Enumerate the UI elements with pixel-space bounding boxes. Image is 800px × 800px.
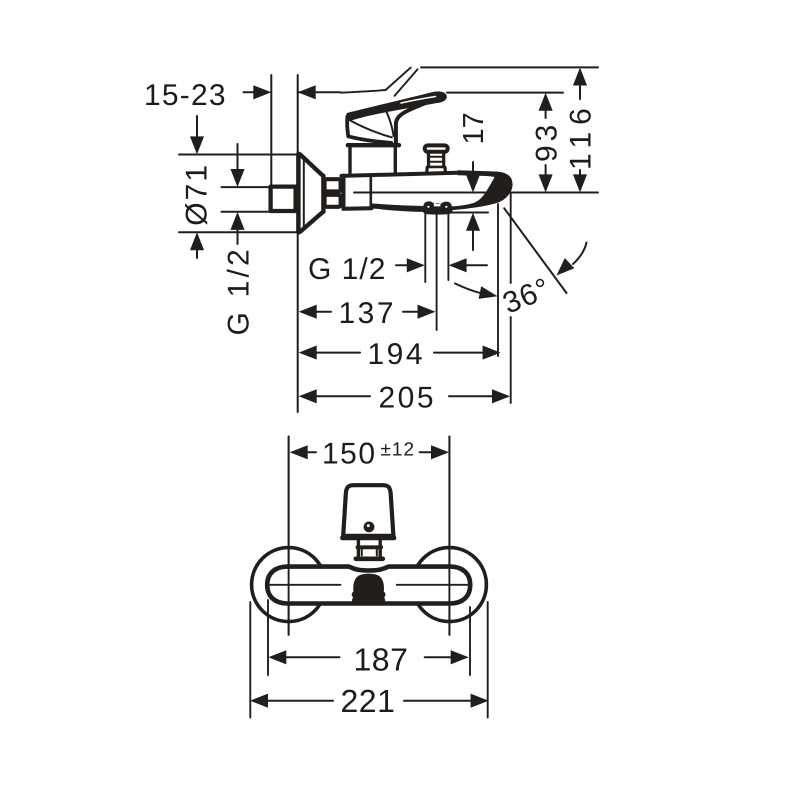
wire: reference line y=92.3 right segment (93 ref) bbox=[447, 92, 563, 94]
body capsule bbox=[267, 567, 470, 604]
angle 36 leader arc to diagonal bbox=[573, 243, 587, 265]
spout (filled profile) bbox=[371, 171, 512, 212]
center line horizontal front view bbox=[266, 584, 468, 586]
handle shell bottom edge bbox=[348, 136, 391, 143]
dimension 15-23 arrow right-pointing bbox=[253, 85, 271, 99]
svg-text:116: 116 bbox=[565, 101, 598, 170]
shower outlet knob ribs bbox=[429, 156, 444, 158]
handle knob bottom band bbox=[343, 535, 394, 540]
valve body left edge bbox=[342, 176, 346, 209]
svg-text:194: 194 bbox=[368, 338, 426, 371]
svg-text:137: 137 bbox=[339, 297, 397, 330]
valve body bottom edge bbox=[344, 206, 372, 211]
center line vertical left (redraw over capsule) bbox=[288, 437, 290, 635]
extension line spout tip x=498 bbox=[497, 204, 499, 356]
dimension 15-23 arrow left-pointing bbox=[298, 85, 316, 99]
handle knob front bbox=[343, 485, 393, 536]
escutcheon top slant bbox=[300, 154, 323, 176]
svg-text:150: 150 bbox=[322, 438, 377, 471]
wire: extension line escutcheon back x=297.7 top bbox=[297, 75, 299, 154]
wire: extension line wall plane x=271 bbox=[270, 75, 272, 186]
dimension 187 line bbox=[286, 656, 339, 658]
G1/2 left arrow up bbox=[230, 212, 244, 230]
wall flange circle right bbox=[412, 548, 486, 622]
dimension 17 arrow up bbox=[466, 213, 480, 231]
cartridge column right edge bbox=[394, 147, 397, 172]
dimension 93 arrow down bbox=[539, 174, 553, 192]
union ring square lower bbox=[325, 195, 341, 207]
handle lever blade white slit bbox=[401, 97, 436, 104]
wire: top reference line y=67.4 (116 ref) bbox=[421, 66, 598, 68]
extension line spout outer x=510.7 bbox=[510, 194, 512, 284]
center line vertical right (redraw over capsule) bbox=[448, 437, 450, 635]
dimension G1/2 center line tails and arrows bbox=[396, 264, 407, 266]
escutcheon back edge bbox=[296, 154, 301, 233]
dimension 137 line bbox=[317, 311, 331, 313]
extension line spout boss right x=448.4 bbox=[447, 213, 449, 280]
escutcheon bottom slant bbox=[300, 212, 323, 232]
dimension 17 arrow down bbox=[466, 175, 480, 193]
G1/2 left arrow down bbox=[230, 169, 244, 187]
escutcheon front edge bbox=[321, 176, 325, 212]
shower outlet knob cap bbox=[425, 145, 448, 151]
wall flange circle left bbox=[252, 548, 326, 622]
svg-text:221: 221 bbox=[341, 683, 396, 719]
dimension 194 line bbox=[317, 352, 360, 354]
wire: reference line y=92.3 mid segment bbox=[298, 91, 341, 93]
neck base band bbox=[356, 556, 383, 561]
svg-text:36°: 36° bbox=[498, 272, 555, 321]
dimension 93 arrow up bbox=[539, 93, 553, 111]
union ring square upper bbox=[325, 179, 341, 191]
phantom raised lever edge 1 bbox=[386, 68, 411, 90]
svg-text:G 1/2: G 1/2 bbox=[223, 246, 256, 335]
spout stub blob front bbox=[352, 574, 386, 605]
handle front curve bbox=[396, 101, 430, 144]
cartridge column left edge bbox=[348, 147, 351, 172]
phantom raised lever rear curve bbox=[341, 90, 386, 93]
dimension 17 bottom line bbox=[446, 212, 488, 214]
extension line outlet center x=436.6 bbox=[436, 213, 438, 330]
dimension 187 extension lines bbox=[267, 600, 269, 675]
G1/2 left extension line bottom bbox=[222, 211, 271, 213]
valve body internal bottom line bbox=[374, 205, 392, 208]
neck band 1 bbox=[357, 545, 381, 549]
handle knob screw bbox=[364, 522, 375, 533]
dimension 116 arrow up bbox=[573, 68, 587, 86]
G1/2 left extension line top bbox=[222, 186, 271, 188]
svg-text:15-23: 15-23 bbox=[144, 79, 227, 112]
angle 36 leader arc to vertical bbox=[455, 284, 481, 294]
svg-text:±12: ±12 bbox=[381, 440, 416, 461]
neck sides bbox=[358, 541, 380, 557]
phantom raised lever edge 2 bbox=[395, 69, 418, 96]
wire: bottom reference line y=192.5 (center line + 17/93/116 ref) bbox=[354, 192, 598, 194]
svg-text:G 1/2: G 1/2 bbox=[308, 253, 386, 286]
angle 36 degree line bbox=[504, 208, 566, 293]
node: square pipe nipple at wall bbox=[271, 187, 296, 211]
handle lever blade (filled) bbox=[347, 92, 446, 120]
dimension 221 line bbox=[268, 700, 333, 702]
svg-text:17: 17 bbox=[458, 112, 490, 144]
shower outlet knob body bbox=[427, 152, 446, 173]
escutcheon inner line bbox=[303, 158, 305, 230]
wire: extension line escutcheon back x=297.7 bottom bbox=[297, 233, 299, 413]
handle back edge bbox=[347, 117, 348, 137]
Ø71 arrow down bbox=[190, 136, 204, 154]
dimension 150 extension line right bbox=[448, 437, 450, 635]
handle shell inner line bbox=[349, 120, 392, 138]
svg-text:205: 205 bbox=[379, 382, 437, 415]
dimension 221 extension lines bbox=[249, 602, 251, 718]
svg-text:Ø71: Ø71 bbox=[181, 163, 214, 226]
dimension 15-23 line left tail bbox=[244, 91, 254, 93]
extension line spout boss left x=425 bbox=[424, 213, 426, 282]
neck inner verticals bbox=[362, 549, 377, 555]
dimension 116 arrow down bbox=[573, 174, 587, 192]
dimension 150 extension line left bbox=[288, 437, 290, 635]
Ø71 extension line top bbox=[179, 154, 297, 156]
svg-text:93: 93 bbox=[531, 121, 564, 162]
handle cap band bbox=[348, 143, 399, 147]
dimension 150 line bbox=[308, 451, 316, 453]
dimension 205 line bbox=[317, 395, 370, 397]
diverter boss under spout bbox=[423, 201, 453, 214]
Ø71 extension line bottom bbox=[179, 231, 297, 233]
svg-text:187: 187 bbox=[354, 642, 409, 678]
valve body internal vertical bbox=[369, 176, 372, 208]
valve body top edge bbox=[342, 173, 463, 176]
Ø71 arrow up bbox=[190, 232, 204, 250]
handle front inner line bbox=[386, 110, 394, 136]
